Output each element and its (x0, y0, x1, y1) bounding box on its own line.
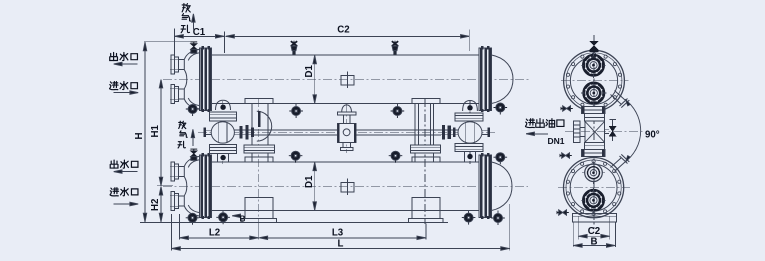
C1 dimension (174, 29, 224, 58)
bottom shell right head (492, 162, 513, 211)
svg-text:C2: C2 (337, 25, 349, 36)
L3 dimension (259, 236, 426, 239)
top circle bolt holes (566, 52, 621, 109)
end view base stand (573, 213, 617, 222)
top unit right tubesheet flange stack (479, 46, 491, 112)
air hole arrow top (192, 15, 194, 30)
bottom shell barrel (212, 162, 480, 211)
centerline right interconnect (469, 101, 471, 164)
svg-text:L: L (338, 238, 344, 249)
ground baseline (140, 221, 448, 223)
bottom unit upper nozzle (170, 162, 184, 181)
top oil nozzle upper (584, 55, 604, 75)
H1 dimension (157, 79, 173, 185)
bottom circle bolt holes (566, 160, 621, 216)
right inter-shell column (411, 99, 441, 162)
B dimension end view (573, 222, 615, 247)
top unit lower nozzle (170, 84, 184, 103)
centerline left interconnect (222, 101, 224, 164)
top bonnet air valve (190, 42, 197, 53)
bottom shell bottom drain plugs (216, 211, 505, 226)
centerline right column (424, 99, 426, 224)
end view top circle centerline (561, 80, 629, 82)
left saddle support (242, 198, 276, 223)
B view arrow (232, 214, 242, 217)
middle bowtie valve (605, 119, 616, 141)
left inter-shell column (244, 99, 275, 162)
H2 dimension (159, 186, 162, 222)
H dimension (143, 42, 190, 222)
svg-text:C2: C2 (588, 226, 600, 237)
top shell right head (492, 55, 514, 104)
top oil nozzle lower (584, 83, 604, 103)
bottom oil nozzle upper (585, 164, 603, 182)
air hole arrow middle (192, 130, 194, 146)
text jin-shui-kou top (110, 81, 138, 89)
C2 dimension end view (578, 222, 610, 239)
bottom shell top plugs (289, 151, 507, 164)
45-degree stub top circle (611, 91, 630, 108)
middle horizontal pipe (254, 130, 441, 135)
centerline middle pipe (198, 131, 497, 133)
svg-text:L2: L2 (209, 227, 220, 238)
bottom oil nozzle lower (584, 190, 604, 210)
bottom bonnet air valve (190, 149, 197, 160)
top unit upper nozzle (170, 55, 184, 74)
bottom circle left cocks (560, 153, 572, 158)
label arrows water ports (114, 64, 138, 204)
svg-text:C1: C1 (193, 27, 206, 38)
end view middle centerline (565, 131, 643, 133)
svg-text:B: B (591, 237, 598, 248)
text chu-shui-kou bottom (110, 160, 138, 168)
middle assembly between circles (574, 106, 605, 156)
top bonnet drain plug (186, 105, 200, 117)
svg-text:D1: D1 (304, 175, 315, 188)
L dimension (171, 247, 509, 250)
svg-text:DN1: DN1 (548, 136, 565, 146)
text jin-chu-you-kou (525, 119, 563, 128)
centerline left column (258, 99, 260, 224)
end view bottom circle centerline (558, 187, 630, 189)
nozzle boss bolt dots (581, 53, 607, 213)
svg-text:90°: 90° (645, 130, 660, 141)
bottom unit lower nozzle (170, 191, 184, 210)
centerline central valve (346, 104, 348, 153)
top circle left cock (561, 106, 573, 111)
right interconnect valve (441, 101, 490, 163)
text jin-shui-kou bottom (110, 188, 138, 196)
oil port arrow (527, 133, 549, 135)
D1 dimension bottom shell (313, 162, 316, 210)
svg-text:B: B (240, 215, 246, 224)
top unit left tubesheet flange stack (200, 46, 212, 112)
svg-text:D1: D1 (304, 65, 315, 78)
text chu-shui-kou top (110, 52, 138, 60)
top shell vent valves (291, 41, 297, 55)
text fang-qi-kong middle vertical (178, 121, 187, 148)
end view vertical centerline (593, 35, 595, 229)
left interconnect valve (204, 100, 254, 162)
end view top air valve (589, 38, 598, 52)
bottom bonnet drain plug (186, 213, 200, 225)
right saddle support (409, 198, 443, 223)
bottom shell nameplate (341, 183, 354, 192)
45-degree stub bottom circle (611, 154, 630, 171)
top shell barrel (212, 55, 480, 104)
bottom unit bonnet (184, 156, 199, 216)
centerline bottom shell (163, 185, 528, 187)
top end-view flange circle (564, 50, 625, 111)
central valve (337, 105, 356, 151)
top shell nameplate (341, 76, 354, 85)
bottom unit left tubesheet flange stack (200, 153, 212, 219)
bottom end-view flange circle (564, 158, 624, 218)
text fang-qi-kong top vertical (181, 4, 191, 33)
top shell bottom drain plugs (289, 103, 507, 118)
D1 dimension top shell (313, 55, 316, 103)
L2 dimension (171, 204, 509, 251)
svg-text:L3: L3 (332, 227, 344, 238)
top unit bonnet (184, 49, 199, 109)
svg-text:H: H (134, 133, 145, 140)
bottom unit right tubesheet flange stack (479, 153, 491, 219)
svg-text:H2: H2 (150, 199, 161, 211)
90 degree arc (624, 98, 641, 163)
centerline top shell (163, 78, 531, 80)
C2 dimension top (226, 30, 470, 52)
svg-text:H1: H1 (150, 125, 161, 138)
